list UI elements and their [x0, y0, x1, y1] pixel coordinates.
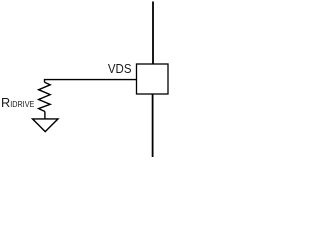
resistor RIDRIVE zigzag — [39, 82, 51, 111]
source wire (bottom vertical) — [152, 94, 154, 157]
svg-text:IDRIVE: IDRIVE — [10, 99, 35, 109]
ground — [33, 119, 59, 132]
MOSFET body box U1 — [137, 64, 169, 94]
drain wire (top vertical) — [152, 2, 154, 65]
wire (horizontal to resistor) — [45, 80, 137, 83]
wire (resistor to ground) — [44, 112, 46, 120]
svg-text:R: R — [1, 96, 10, 110]
svg-text:VDS: VDS — [108, 61, 132, 76]
